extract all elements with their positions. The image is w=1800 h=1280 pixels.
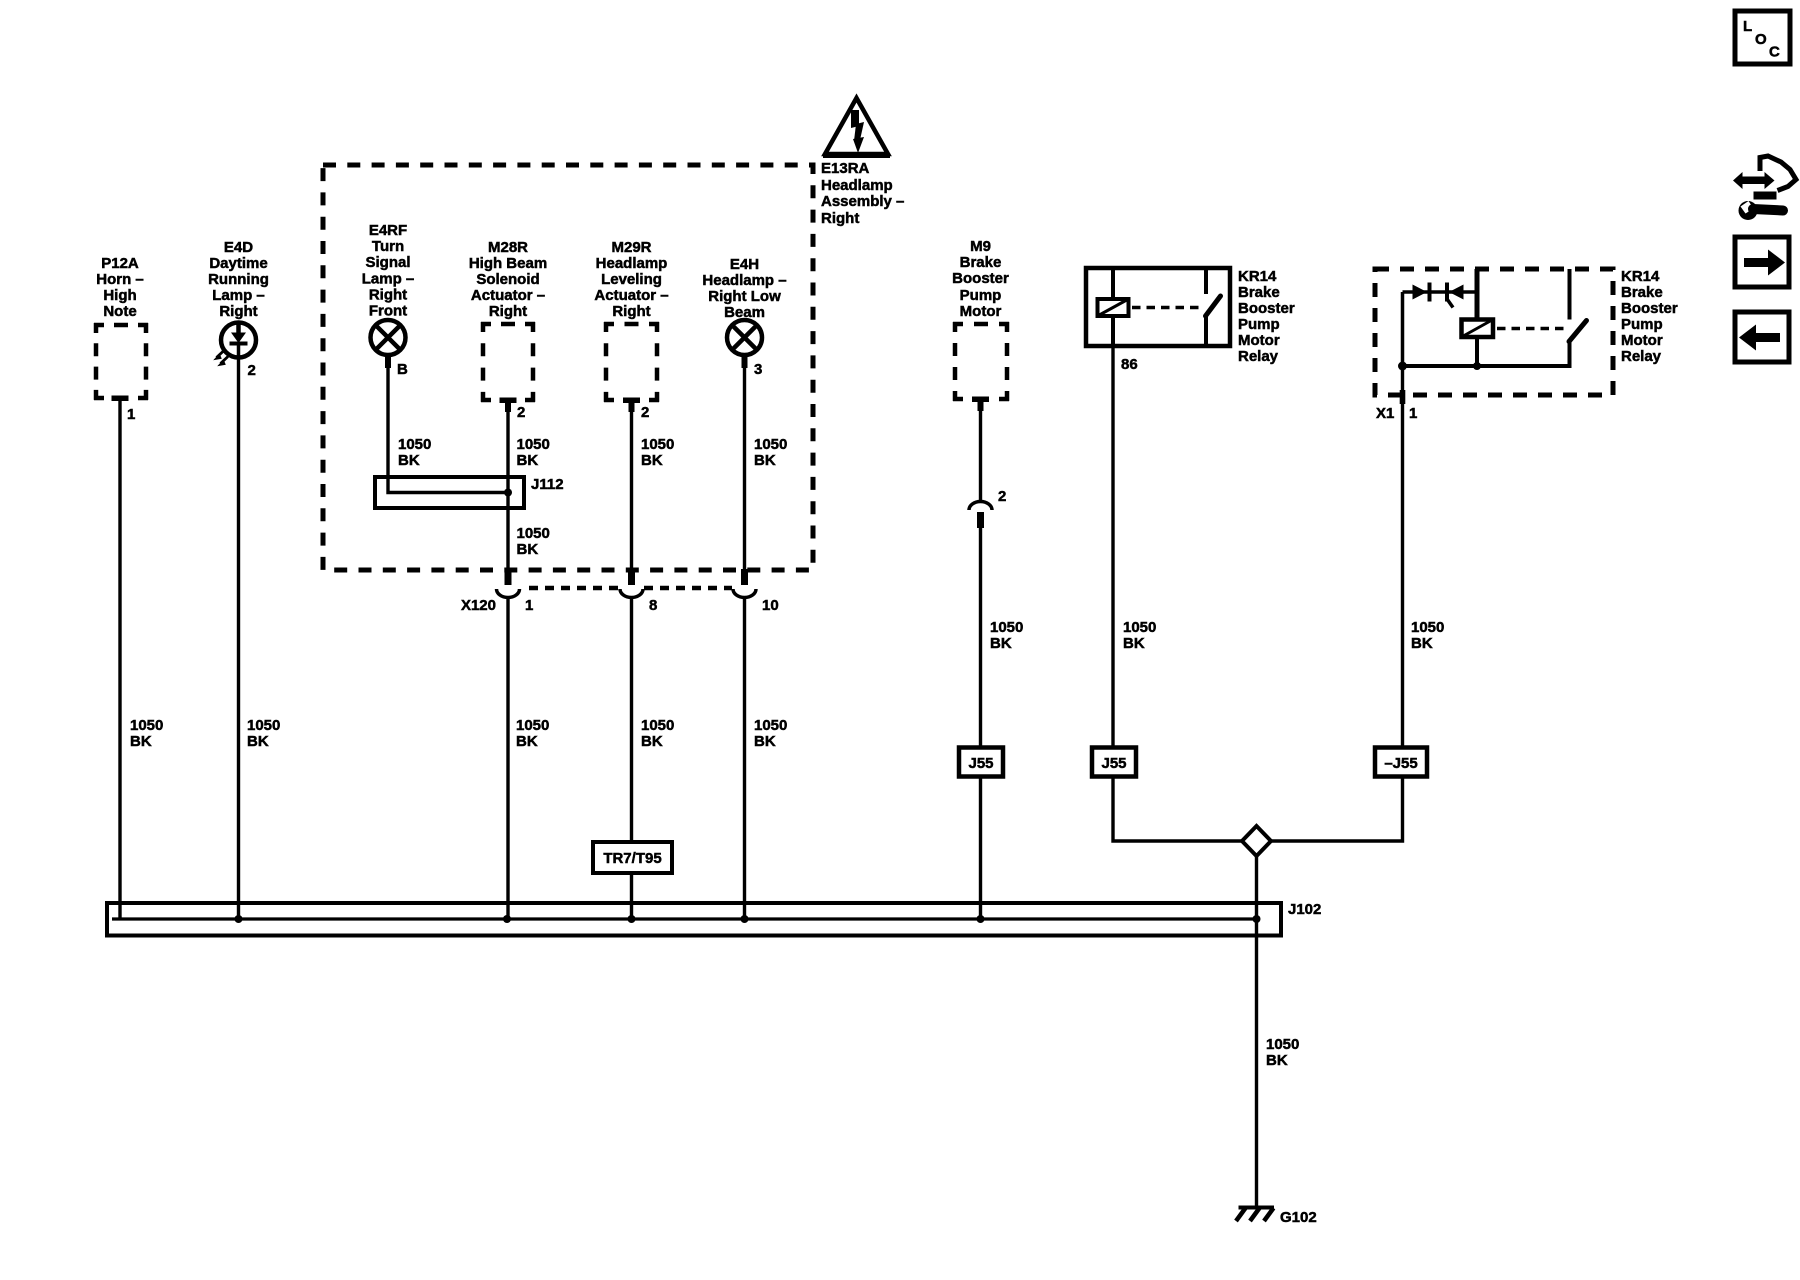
svg-text:BK: BK bbox=[641, 733, 663, 750]
svg-text:Pump: Pump bbox=[1621, 316, 1663, 333]
splice J112 bbox=[375, 476, 564, 508]
wire E4D to bus bbox=[237, 357, 240, 919]
wire M9 to connector bbox=[979, 410, 982, 501]
svg-text:High Beam: High Beam bbox=[469, 255, 547, 272]
wire label 1050 BK (relay 2) bbox=[1411, 619, 1444, 652]
svg-text:Right: Right bbox=[489, 303, 527, 320]
splice J55 (M9 branch) bbox=[959, 748, 1003, 777]
wire J55 to bus (M9 branch) bbox=[979, 777, 982, 919]
svg-text:Booster: Booster bbox=[1238, 300, 1295, 317]
svg-text:Lamp –: Lamp – bbox=[362, 271, 415, 288]
svg-text:Assembly –: Assembly – bbox=[821, 193, 904, 210]
svg-text:BK: BK bbox=[1123, 635, 1145, 652]
forward arrow box bbox=[1735, 237, 1789, 287]
label KR14 (right relay) bbox=[1621, 268, 1678, 365]
wire label 1050 BK (E4D) bbox=[247, 717, 280, 750]
svg-text:B: B bbox=[397, 361, 408, 378]
headlamp leveling actuator M29R bbox=[594, 239, 668, 412]
svg-text:Headlamp: Headlamp bbox=[596, 255, 668, 272]
brake booster pump motor M9 bbox=[952, 238, 1009, 411]
svg-text:Note: Note bbox=[103, 303, 136, 320]
svg-text:1050: 1050 bbox=[641, 436, 674, 453]
svg-text:Brake: Brake bbox=[1621, 284, 1663, 301]
svg-text:Lamp –: Lamp – bbox=[212, 287, 265, 304]
svg-text:Actuator –: Actuator – bbox=[594, 287, 668, 304]
svg-text:J112: J112 bbox=[531, 476, 564, 493]
splice J55 (relay branch) bbox=[1092, 748, 1136, 777]
svg-text:Headlamp –: Headlamp – bbox=[702, 272, 786, 289]
svg-text:M28R: M28R bbox=[488, 239, 528, 256]
ground G102 bbox=[1236, 1208, 1317, 1227]
pin X1 1 labels bbox=[1376, 405, 1417, 422]
wire relay2 X1-1 to -J55 bbox=[1401, 366, 1404, 747]
svg-text:J102: J102 bbox=[1288, 901, 1321, 918]
svg-text:M9: M9 bbox=[970, 238, 991, 255]
svg-text:Signal: Signal bbox=[365, 254, 410, 271]
wire diamond to bus to ground bbox=[1255, 856, 1258, 1207]
junction dot M9 at bus bbox=[977, 915, 985, 923]
wire relay 86 to J55 bbox=[1111, 346, 1114, 747]
svg-text:1050: 1050 bbox=[754, 436, 787, 453]
wire label 1050 BK (M28R below J112) bbox=[517, 525, 550, 558]
svg-text:E13RA: E13RA bbox=[821, 160, 870, 177]
pin tick relay2 bottom edge bbox=[1400, 390, 1406, 404]
svg-text:3: 3 bbox=[754, 361, 762, 378]
svg-text:1050: 1050 bbox=[641, 717, 674, 734]
wire label 1050 BK (P12A) bbox=[130, 717, 163, 750]
svg-text:Brake: Brake bbox=[960, 254, 1002, 271]
connector pin 2 (M9) bbox=[969, 488, 1006, 528]
svg-text:J55: J55 bbox=[968, 755, 993, 772]
horn P12A bbox=[94, 255, 148, 401]
svg-text:M29R: M29R bbox=[611, 239, 651, 256]
wire E4H to X120 bbox=[743, 355, 746, 569]
svg-text:BK: BK bbox=[516, 733, 538, 750]
high beam solenoid actuator M28R bbox=[469, 239, 547, 412]
svg-text:8: 8 bbox=[649, 597, 657, 614]
splice pack TR7/T95 bbox=[593, 842, 672, 873]
svg-text:1050: 1050 bbox=[1123, 619, 1156, 636]
svg-text:1: 1 bbox=[127, 406, 135, 423]
svg-text:Right: Right bbox=[821, 210, 859, 227]
svg-text:1050: 1050 bbox=[130, 717, 163, 734]
svg-text:KR14: KR14 bbox=[1238, 268, 1277, 285]
relay KR14 (energized side) bbox=[1086, 268, 1230, 346]
wire label 1050 BK (M29R upper) bbox=[641, 436, 674, 469]
svg-text:BK: BK bbox=[247, 733, 269, 750]
svg-text:2: 2 bbox=[641, 404, 649, 421]
wire label 1050 BK (E4H lower) bbox=[754, 717, 787, 750]
svg-text:Motor: Motor bbox=[1238, 332, 1280, 349]
wire E4RF to splice J112 bbox=[388, 355, 508, 493]
svg-text:Booster: Booster bbox=[952, 270, 1009, 287]
svg-text:Relay: Relay bbox=[1238, 348, 1279, 365]
warning triangle bbox=[823, 98, 890, 158]
svg-text:Front: Front bbox=[369, 303, 407, 320]
svg-text:O: O bbox=[1755, 31, 1767, 48]
svg-text:1050: 1050 bbox=[398, 436, 431, 453]
label KR14 (left relay) bbox=[1238, 268, 1295, 365]
diagnostic jump icon bbox=[1733, 156, 1796, 220]
svg-text:E4D: E4D bbox=[224, 239, 253, 256]
svg-text:Right: Right bbox=[612, 303, 650, 320]
svg-text:BK: BK bbox=[517, 452, 539, 469]
svg-text:Running: Running bbox=[208, 271, 269, 288]
svg-text:X120: X120 bbox=[461, 597, 496, 614]
junction dot E4H at bus bbox=[741, 915, 749, 923]
svg-text:10: 10 bbox=[762, 597, 779, 614]
svg-text:Pump: Pump bbox=[960, 287, 1002, 304]
wire label 1050 BK (ground wire) bbox=[1266, 1036, 1299, 1069]
wire M9 connector to J55 bbox=[979, 528, 982, 747]
svg-text:2: 2 bbox=[517, 404, 525, 421]
svg-text:Solenoid: Solenoid bbox=[476, 271, 539, 288]
svg-text:Actuator –: Actuator – bbox=[471, 287, 545, 304]
svg-text:BK: BK bbox=[754, 452, 776, 469]
back arrow box bbox=[1735, 312, 1789, 362]
junction dot M28R at bus bbox=[503, 915, 511, 923]
wire M28R through J112 to X120 bbox=[506, 410, 509, 569]
relay 2 internals bbox=[1398, 269, 1587, 371]
svg-text:G102: G102 bbox=[1280, 1209, 1317, 1226]
svg-text:Brake: Brake bbox=[1238, 284, 1280, 301]
svg-text:1: 1 bbox=[525, 597, 533, 614]
svg-text:KR14: KR14 bbox=[1621, 268, 1660, 285]
svg-text:1050: 1050 bbox=[1266, 1036, 1299, 1053]
svg-text:1050: 1050 bbox=[517, 525, 550, 542]
wire label 1050 BK (M29R lower) bbox=[641, 717, 674, 750]
svg-text:1050: 1050 bbox=[247, 717, 280, 734]
svg-text:BK: BK bbox=[130, 733, 152, 750]
label E13RA bbox=[821, 160, 904, 227]
svg-text:L: L bbox=[1743, 18, 1752, 35]
connector pin X120-10 bbox=[733, 569, 779, 614]
svg-text:1050: 1050 bbox=[1411, 619, 1444, 636]
svg-text:Headlamp: Headlamp bbox=[821, 177, 893, 194]
diamond merge node bbox=[1242, 826, 1271, 856]
svg-text:86: 86 bbox=[1121, 356, 1138, 373]
svg-text:E4H: E4H bbox=[730, 256, 759, 273]
svg-text:BK: BK bbox=[1266, 1052, 1288, 1069]
svg-text:Leveling: Leveling bbox=[601, 271, 662, 288]
svg-text:High: High bbox=[103, 287, 136, 304]
wire M29R to X120 bbox=[630, 410, 633, 569]
relay KR14 (coil suppression side, dashed) bbox=[1375, 269, 1613, 395]
svg-text:Right: Right bbox=[219, 303, 257, 320]
svg-text:1050: 1050 bbox=[754, 717, 787, 734]
wire label 1050 BK (E4H upper) bbox=[754, 436, 787, 469]
splice -J55 bbox=[1375, 748, 1427, 777]
wire label 1050 BK (M28R upper) bbox=[517, 436, 550, 469]
wire -J55 to diamond bbox=[1270, 777, 1403, 841]
svg-text:Turn: Turn bbox=[372, 238, 404, 255]
svg-text:C: C bbox=[1769, 44, 1780, 61]
svg-text:BK: BK bbox=[641, 452, 663, 469]
junction dot ground wire at bus bbox=[1253, 915, 1261, 923]
svg-text:Booster: Booster bbox=[1621, 300, 1678, 317]
svg-text:X1: X1 bbox=[1376, 405, 1394, 422]
svg-text:Right Low: Right Low bbox=[708, 288, 781, 305]
svg-text:BK: BK bbox=[517, 541, 539, 558]
daytime running lamp E4D bbox=[208, 239, 269, 366]
svg-text:Right: Right bbox=[369, 287, 407, 304]
svg-text:Pump: Pump bbox=[1238, 316, 1280, 333]
svg-text:TR7/T95: TR7/T95 bbox=[603, 850, 661, 867]
ground bus J102 bbox=[107, 901, 1321, 936]
svg-text:J55: J55 bbox=[1101, 755, 1126, 772]
svg-text:2: 2 bbox=[248, 362, 256, 379]
turn signal lamp E4RF bbox=[362, 222, 415, 368]
connector pin X120-8 bbox=[620, 569, 657, 614]
wire X120-10 to bus bbox=[743, 598, 746, 920]
svg-text:1: 1 bbox=[1409, 405, 1417, 422]
LOC box bbox=[1735, 11, 1790, 64]
svg-text:P12A: P12A bbox=[101, 255, 139, 272]
svg-text:Horn –: Horn – bbox=[96, 271, 144, 288]
svg-text:Relay: Relay bbox=[1621, 348, 1662, 365]
wire X120-1 to bus bbox=[506, 598, 509, 920]
svg-text:1050: 1050 bbox=[517, 436, 550, 453]
svg-text:BK: BK bbox=[398, 452, 420, 469]
wire X120-8 to TR7/T95 bbox=[630, 598, 633, 843]
svg-text:1050: 1050 bbox=[516, 717, 549, 734]
wire label 1050 BK (M28R lower) bbox=[516, 717, 549, 750]
wire P12A to bus bbox=[118, 400, 121, 919]
junction dot E4D at bus bbox=[235, 915, 243, 923]
wire label 1050 BK (E4RF) bbox=[398, 436, 431, 469]
junction dot M29R at bus bbox=[628, 915, 636, 923]
wire TR7/T95 to bus bbox=[630, 873, 633, 919]
svg-text:BK: BK bbox=[1411, 635, 1433, 652]
svg-text:Motor: Motor bbox=[960, 303, 1002, 320]
svg-text:BK: BK bbox=[754, 733, 776, 750]
headlamp assembly E13RA box bbox=[323, 165, 813, 570]
low beam headlamp E4H bbox=[702, 256, 786, 368]
svg-text:–J55: –J55 bbox=[1384, 755, 1417, 772]
svg-text:BK: BK bbox=[990, 635, 1012, 652]
connector pin X120-1 bbox=[497, 569, 534, 614]
svg-text:Daytime: Daytime bbox=[209, 255, 267, 272]
wire label 1050 BK (M9) bbox=[990, 619, 1023, 652]
wire J55 to diamond (relay branch) bbox=[1113, 777, 1243, 841]
svg-text:1050: 1050 bbox=[990, 619, 1023, 636]
svg-text:Motor: Motor bbox=[1621, 332, 1663, 349]
svg-text:2: 2 bbox=[998, 488, 1006, 505]
svg-text:E4RF: E4RF bbox=[369, 222, 407, 239]
wire label 1050 BK (relay 1) bbox=[1123, 619, 1156, 652]
connector X120 dotted bar bbox=[461, 588, 732, 614]
